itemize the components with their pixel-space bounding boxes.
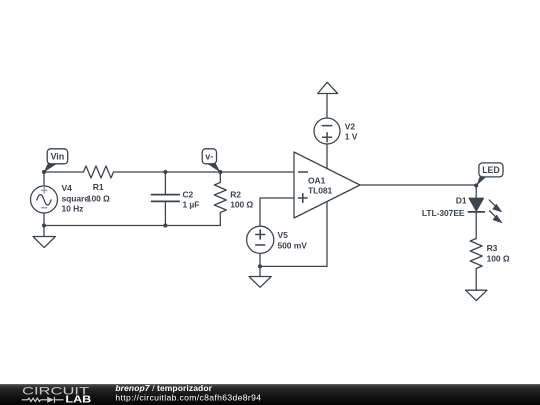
svg-text:100 Ω: 100 Ω [87, 193, 110, 203]
svg-text:1 µF: 1 µF [183, 200, 200, 210]
svg-text:1 V: 1 V [345, 131, 358, 141]
svg-text:D1: D1 [456, 196, 467, 206]
svg-text:brenop7 / temporizador: brenop7 / temporizador [115, 383, 212, 393]
svg-text:LED: LED [482, 165, 500, 175]
svg-text:100 Ω: 100 Ω [487, 253, 510, 263]
svg-text:TL081: TL081 [308, 186, 333, 196]
svg-text:OA1: OA1 [308, 176, 326, 186]
svg-text:LAB: LAB [65, 394, 91, 405]
svg-text:LTL-307EE: LTL-307EE [422, 208, 465, 218]
svg-text:R2: R2 [230, 190, 241, 200]
svg-text:500 mV: 500 mV [278, 240, 308, 250]
svg-text:R1: R1 [93, 182, 104, 192]
svg-text:100 Ω: 100 Ω [230, 200, 253, 210]
svg-text:V5: V5 [278, 230, 289, 240]
svg-text:10 Hz: 10 Hz [62, 204, 84, 214]
svg-text:C2: C2 [183, 190, 194, 200]
svg-text:V4: V4 [62, 183, 73, 193]
svg-text:square: square [62, 193, 90, 203]
svg-text:http://circuitlab.com/c8afh63d: http://circuitlab.com/c8afh63de8r94 [115, 392, 261, 402]
svg-text:Vin: Vin [50, 152, 64, 162]
svg-text:V2: V2 [345, 121, 356, 131]
svg-text:R3: R3 [487, 243, 498, 253]
svg-text:v-: v- [205, 152, 213, 162]
